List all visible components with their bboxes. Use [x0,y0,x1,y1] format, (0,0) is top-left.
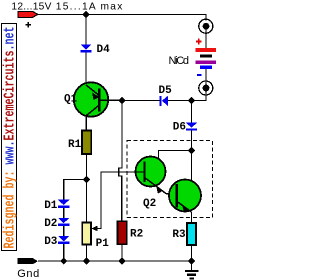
svg-text:Gnd: Gnd [17,268,39,280]
transistor Q1 [74,82,122,116]
diode D6 [186,122,197,130]
wire top rail [38,15,206,21]
resistor R3 [187,223,196,245]
wire D2 to D3 [63,226,65,236]
svg-text:D6: D6 [173,122,186,134]
wire D3 to rail [63,244,65,261]
potentiometer P1 [82,223,97,245]
terminal battery minus pin [203,85,210,92]
wire P1 to rail [86,245,88,262]
node R2 rail junction [118,257,125,264]
node junction Q1 base [118,97,125,104]
terminal battery minus [199,81,213,95]
wire R3 to ground [191,245,193,261]
wire collector node to Q2b [177,151,191,190]
svg-text:D1: D1 [44,200,58,212]
svg-text:R1: R1 [68,139,82,151]
wire right node to D6 [191,101,193,123]
svg-text:P1: P1 [96,238,110,250]
svg-text:D4: D4 [97,44,111,56]
wire R1 to node F [86,154,88,180]
diode D3 [58,236,69,244]
wire battery to top terminal [205,15,207,49]
node ground junction [188,257,195,264]
node collector junction [188,147,195,154]
wire D1 to D2 [63,208,65,218]
svg-text:NiCd: NiCd [169,55,190,67]
svg-text:D3: D3 [44,236,58,248]
svg-text:D5: D5 [159,85,173,97]
fuse input terminal [18,11,38,17]
transistor Q2a [136,157,167,194]
node junction top [82,11,89,18]
diode D4 [80,44,91,52]
plus sign input [25,22,31,28]
battery NiCd [196,48,216,69]
ground symbol [185,261,199,280]
svg-text:Redisgned by: www.ExtremeCircu: Redisgned by: www.ExtremeCircuits.net [1,26,18,248]
svg-text:Q1: Q1 [64,93,78,105]
wire Q2a emitter to Q2b base [166,193,177,195]
node divider junction [83,176,90,183]
watermark box [2,24,17,251]
wire right node to battery terminal [192,88,207,101]
wire D4 to Q1 [85,52,87,86]
wire Q1 collector to R1 [85,116,87,131]
svg-text:D2: D2 [44,218,57,230]
svg-text:R2: R2 [130,228,143,240]
terminal battery plus pin [203,23,210,30]
wire terminal to battery [205,69,207,88]
svg-text:15...1A max: 15...1A max [56,2,123,13]
label battery minus [197,74,202,76]
wire D5 to right node [168,100,192,102]
wire node F to diode chain [64,180,87,200]
wire collector node to Q2a [145,151,192,167]
wire bottom rail [38,260,192,262]
wire D6 to collector node [191,131,193,151]
resistor R2 [118,221,127,244]
wire base node to D5 [122,100,159,102]
resistor R1 [82,131,91,155]
transistor Q2b [169,180,201,213]
svg-text:Q2: Q2 [143,198,156,210]
node P1 rail junction [83,257,90,264]
wire node F to P1 [86,180,88,223]
node junction right [188,97,195,104]
label battery plus [196,39,202,45]
svg-text:R3: R3 [172,229,186,241]
wire Q2 base from wiper [97,172,145,229]
wire R2 to rail [121,244,123,261]
diode D5 [159,96,168,106]
diode D2 [58,218,69,226]
dashed box Q2 [127,141,213,218]
wire base node down jog to R2 [119,101,122,222]
wire junction to D4 [85,15,87,45]
node D3 rail junction [60,257,67,264]
ground terminal [18,258,38,264]
watermark text [1,26,18,248]
diode D1 [58,200,69,208]
terminal battery plus [199,19,213,33]
wire Q2b emitter to R3 [191,212,193,223]
